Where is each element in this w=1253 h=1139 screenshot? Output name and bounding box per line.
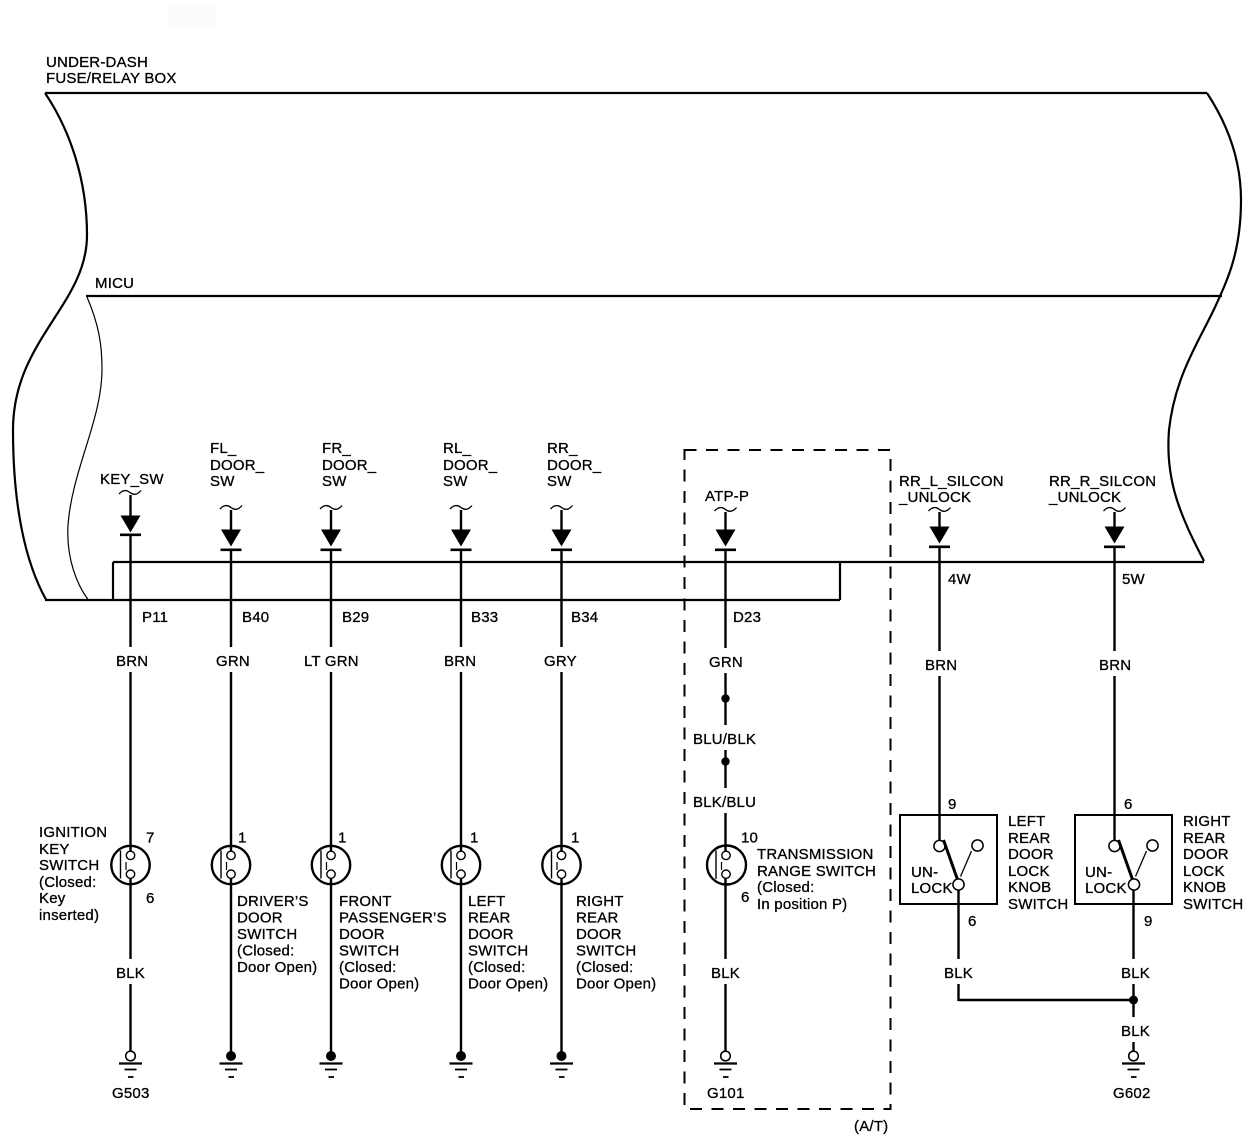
svg-text:(Closed:: (Closed: [576, 959, 633, 976]
svg-text:LOCK: LOCK [911, 880, 953, 897]
switch S2 driver's door switch [212, 846, 250, 884]
svg-text:DOOR_: DOOR_ [322, 457, 377, 474]
svg-text:BRN: BRN [116, 653, 148, 670]
faint watermark box [168, 4, 216, 30]
net label RR_L_SILCON_UNLOCK [898, 473, 1004, 506]
svg-text:REAR: REAR [1008, 830, 1050, 847]
wire RR_L_SILCON_UNLOCK upper [938, 512, 940, 527]
fuse/relay box right wavy edge [1168, 93, 1241, 561]
ground G503 [119, 1051, 142, 1077]
svg-text:PASSENGER’S: PASSENGER’S [339, 910, 447, 927]
wire color label BLK (right knob) [1115, 959, 1159, 984]
right knob switch contact right [1147, 840, 1158, 851]
svg-text:SWITCH: SWITCH [39, 857, 99, 874]
wire squiggle RL_DOOR_SW [450, 506, 472, 510]
dashed A/T option box [685, 450, 891, 1109]
svg-text:DOOR: DOOR [1008, 846, 1054, 863]
svg-text:REAR: REAR [576, 910, 618, 927]
wire color label BRN (RR_L) [919, 651, 964, 676]
wire color label BLK (transmission) [705, 959, 749, 984]
triangle bar RL_DOOR_SW [451, 548, 472, 551]
svg-text:5W: 5W [1122, 571, 1146, 588]
svg-text:6: 6 [1124, 796, 1133, 813]
svg-text:FRONT: FRONT [339, 893, 392, 910]
wire FR_DOOR_SW upper [330, 510, 332, 530]
switch S4 left rear door switch [442, 846, 480, 884]
ground left rear door switch [450, 1051, 473, 1077]
right knob switch alternate position line [1136, 851, 1147, 877]
net label FR_DOOR_SW [322, 440, 377, 490]
label left rear door switch [468, 893, 548, 993]
svg-text:SWITCH: SWITCH [576, 943, 636, 960]
svg-text:DRIVER’S: DRIVER’S [237, 893, 309, 910]
ground driver's door switch [220, 1051, 243, 1077]
svg-text:BLK/BLU: BLK/BLU [693, 794, 756, 811]
wire RR_L_SILCON_UNLOCK to knob switch [938, 547, 940, 840]
left knob switch pivot contact [953, 879, 964, 890]
triangle ATP-P [716, 530, 736, 547]
wire ATP-P upper [724, 512, 726, 530]
svg-text:Door Open): Door Open) [576, 976, 656, 993]
left rear door lock knob switch box [900, 815, 997, 904]
svg-text:inserted): inserted) [39, 907, 99, 924]
ground G602 [1122, 1051, 1145, 1077]
wire color label GRN (FL) [210, 647, 255, 672]
wire color label BLK/BLU [687, 788, 764, 813]
svg-text:GRN: GRN [216, 653, 250, 670]
net label RR_DOOR_SW [547, 440, 602, 490]
svg-text:6: 6 [968, 913, 977, 930]
svg-text:(Closed:: (Closed: [757, 879, 814, 896]
wire squiggle RR_R_SILCON_UNLOCK [1104, 508, 1126, 512]
svg-text:Door Open): Door Open) [339, 976, 419, 993]
svg-text:1: 1 [470, 830, 479, 847]
svg-text:LOCK: LOCK [1085, 880, 1127, 897]
wire RR_DOOR_SW upper [560, 510, 562, 530]
wire color label BLK (to G602) [1115, 1017, 1159, 1042]
svg-text:(Closed:: (Closed: [468, 959, 525, 976]
wire driver's door switch to ground [230, 878, 232, 1052]
svg-text:BLK: BLK [711, 965, 740, 982]
svg-text:DOOR_: DOOR_ [443, 457, 498, 474]
svg-text:DOOR: DOOR [1183, 846, 1229, 863]
svg-text:UN-: UN- [1085, 864, 1112, 881]
svg-text:G503: G503 [112, 1085, 150, 1102]
wire RR_DOOR_SW to switch [560, 550, 562, 852]
svg-text:SW: SW [443, 473, 468, 490]
svg-text:BRN: BRN [925, 657, 957, 674]
wire left knob switch output [957, 891, 959, 1002]
triangle bar RR_DOOR_SW [551, 548, 572, 551]
svg-text:GRN: GRN [709, 654, 743, 671]
svg-text:DOOR_: DOOR_ [547, 457, 602, 474]
svg-text:RIGHT: RIGHT [1183, 813, 1231, 830]
ground front passenger's door switch [320, 1051, 343, 1077]
triangle RL_DOOR_SW [451, 530, 471, 547]
wire squiggle FR_DOOR_SW [320, 506, 342, 510]
wire left rear door switch to ground [460, 878, 462, 1052]
triangle bar FL_DOOR_SW [221, 548, 242, 551]
svg-text:BLK: BLK [1121, 1023, 1150, 1040]
wire right rear door switch to ground [560, 878, 562, 1052]
svg-text:LT GRN: LT GRN [304, 653, 359, 670]
svg-text:LOCK: LOCK [1183, 863, 1225, 880]
svg-text:KEY: KEY [39, 841, 70, 858]
label front passenger's door switch [339, 893, 447, 993]
junction dot ATP-P lower [721, 757, 729, 765]
svg-text:SWITCH: SWITCH [468, 943, 528, 960]
fuse/relay box bottom edge right part [113, 561, 1204, 563]
wire squiggle KEY_SW [119, 491, 141, 495]
wire FR_DOOR_SW to switch [330, 550, 332, 852]
svg-text:UN-: UN- [911, 864, 938, 881]
svg-text:G602: G602 [1113, 1085, 1151, 1102]
svg-text:BLU/BLK: BLU/BLK [693, 731, 756, 748]
ground G101 [714, 1051, 737, 1077]
triangle bar KEY_SW [120, 533, 141, 536]
triangle RR_R_SILCON_UNLOCK [1105, 527, 1125, 544]
svg-text:6: 6 [741, 889, 750, 906]
connector strip right vertical [839, 562, 841, 600]
svg-text:SWITCH: SWITCH [1183, 896, 1243, 913]
junction dot ATP-P upper [721, 694, 729, 702]
fuse/relay box top edge [45, 92, 1207, 94]
svg-text:REAR: REAR [468, 910, 510, 927]
triangle bar RR_L_SILCON_UNLOCK [929, 545, 950, 548]
svg-text:FR_: FR_ [322, 440, 351, 457]
svg-text:B29: B29 [342, 609, 369, 626]
left knob switch lever [944, 840, 958, 880]
svg-text:G101: G101 [707, 1085, 745, 1102]
triangle RR_DOOR_SW [552, 530, 572, 547]
svg-text:B33: B33 [471, 609, 498, 626]
switch S1 ignition key switch [111, 846, 149, 884]
right knob switch lever [1119, 840, 1133, 880]
net label RR_R_SILCON_UNLOCK [1048, 473, 1156, 506]
left knob switch alternate position line [961, 851, 972, 877]
label UN-LOCK (left knob switch) [911, 864, 953, 897]
svg-text:MICU: MICU [95, 275, 134, 292]
svg-text:9: 9 [948, 796, 957, 813]
connector strip left vertical [112, 562, 114, 600]
wire color label BRN (KEY_SW) [109, 647, 154, 672]
wire ATP-P lower [724, 762, 726, 853]
wire FL_DOOR_SW to switch [230, 550, 232, 852]
right rear door lock knob switch box [1075, 815, 1172, 904]
svg-text:DOOR: DOOR [339, 926, 385, 943]
svg-text:BLK: BLK [116, 965, 145, 982]
svg-text:UNDER-DASH: UNDER-DASH [46, 54, 148, 71]
wire color label GRN (ATP-P) [703, 648, 748, 673]
svg-text:B34: B34 [571, 609, 598, 626]
label transmission range switch [757, 846, 876, 913]
svg-text:(Closed:: (Closed: [237, 943, 294, 960]
junction dot BLK wires [1129, 996, 1138, 1005]
svg-text:6: 6 [146, 890, 155, 907]
svg-text:GRY: GRY [544, 653, 577, 670]
svg-text:SWITCH: SWITCH [339, 943, 399, 960]
wire KEY_SW upper [129, 495, 131, 516]
svg-text:RIGHT: RIGHT [576, 893, 624, 910]
switch S6 transmission range switch [707, 846, 746, 885]
label UNDER-DASH FUSE/RELAY BOX [46, 54, 177, 87]
label right rear door lock knob switch [1183, 813, 1243, 913]
svg-text:BLK: BLK [944, 965, 973, 982]
wire ATP-P middle [724, 699, 726, 762]
wire RR_R_SILCON_UNLOCK to knob switch [1113, 547, 1115, 840]
svg-text:(Closed:: (Closed: [339, 959, 396, 976]
svg-text:RL_: RL_ [443, 440, 472, 457]
switch S3 front passenger's door switch [312, 846, 350, 884]
switch S5 right rear door switch [542, 846, 580, 884]
svg-text:TRANSMISSION: TRANSMISSION [757, 846, 874, 863]
wire FL_DOOR_SW upper [230, 510, 232, 530]
wire BLK ignition key switch to ground [129, 878, 131, 1052]
svg-text:LEFT: LEFT [1008, 813, 1045, 830]
wire color label BRN (RL) [438, 647, 483, 672]
wire elbow left knob to right ground [959, 999, 1134, 1001]
svg-text:RR_L_SILCON: RR_L_SILCON [899, 473, 1004, 490]
wire color label BLU/BLK [687, 725, 764, 750]
svg-text:1: 1 [571, 830, 580, 847]
svg-text:7: 7 [146, 830, 155, 847]
triangle bar FR_DOOR_SW [321, 548, 342, 551]
wire KEY_SW to switch [129, 535, 131, 852]
svg-text:DOOR: DOOR [468, 926, 514, 943]
svg-text:BRN: BRN [444, 653, 476, 670]
svg-text:SW: SW [322, 473, 347, 490]
wire color label GRY (RR) [538, 647, 583, 672]
svg-text:10: 10 [741, 830, 758, 847]
fuse/relay box left wavy edge [13, 93, 87, 600]
triangle FL_DOOR_SW [221, 530, 241, 547]
wire right knob switch output [1132, 891, 1134, 1052]
label UN-LOCK (right knob switch) [1085, 864, 1127, 897]
svg-text:REAR: REAR [1183, 830, 1225, 847]
svg-text:Key: Key [39, 890, 66, 907]
svg-text:_UNLOCK: _UNLOCK [1048, 489, 1121, 506]
svg-text:LOCK: LOCK [1008, 863, 1050, 880]
svg-text:4W: 4W [948, 571, 972, 588]
svg-text:1: 1 [238, 830, 247, 847]
svg-text:Door Open): Door Open) [237, 959, 317, 976]
wire squiggle RR_L_SILCON_UNLOCK [929, 508, 951, 512]
svg-text:P11: P11 [142, 609, 168, 626]
triangle KEY_SW [121, 516, 141, 533]
svg-text:RR_: RR_ [547, 440, 578, 457]
MICU top edge [86, 295, 1222, 297]
left knob switch contact left [934, 840, 945, 851]
right knob switch pivot contact [1128, 879, 1139, 890]
svg-text:In position P): In position P) [757, 896, 847, 913]
triangle bar RR_R_SILCON_UNLOCK [1104, 545, 1125, 548]
wire front passenger's door switch to ground [330, 878, 332, 1052]
svg-text:FL_: FL_ [210, 440, 237, 457]
label driver's door switch [237, 893, 317, 976]
svg-text:SW: SW [547, 473, 572, 490]
svg-text:1: 1 [338, 830, 347, 847]
triangle bar ATP-P [715, 548, 736, 551]
wire color label BLK (left knob) [938, 959, 982, 984]
wire RR_R_SILCON_UNLOCK upper [1113, 512, 1115, 527]
svg-text:(A/T): (A/T) [854, 1118, 888, 1135]
svg-text:DOOR_: DOOR_ [210, 457, 265, 474]
wire RL_DOOR_SW upper [460, 510, 462, 530]
svg-text:IGNITION: IGNITION [39, 824, 107, 841]
svg-text:SWITCH: SWITCH [1008, 896, 1068, 913]
svg-text:KNOB: KNOB [1183, 879, 1226, 896]
wire RL_DOOR_SW to switch [460, 550, 462, 852]
svg-text:RR_R_SILCON: RR_R_SILCON [1049, 473, 1156, 490]
MICU left wavy edge [68, 297, 102, 600]
ground right rear door switch [550, 1051, 573, 1077]
left knob switch contact right [972, 840, 983, 851]
right knob switch contact left [1109, 840, 1120, 851]
svg-text:(Closed:: (Closed: [39, 874, 96, 891]
label ignition key switch [39, 824, 107, 924]
wire squiggle RR_DOOR_SW [551, 506, 573, 510]
svg-text:LEFT: LEFT [468, 893, 505, 910]
svg-text:BLK: BLK [1121, 965, 1150, 982]
svg-text:9: 9 [1144, 913, 1153, 930]
wire color label BLK (ignition) [110, 959, 154, 984]
svg-text:DOOR: DOOR [237, 910, 283, 927]
svg-text:KEY_SW: KEY_SW [100, 471, 164, 488]
svg-text:ATP-P: ATP-P [705, 488, 749, 505]
svg-text:D23: D23 [733, 609, 761, 626]
svg-text:SW: SW [210, 473, 235, 490]
svg-text:Door Open): Door Open) [468, 976, 548, 993]
wire color label LT GRN (FR) [298, 647, 365, 672]
svg-text:KNOB: KNOB [1008, 879, 1051, 896]
svg-text:_UNLOCK: _UNLOCK [898, 489, 971, 506]
triangle FR_DOOR_SW [321, 530, 341, 547]
svg-text:BRN: BRN [1099, 657, 1131, 674]
svg-text:RANGE SWITCH: RANGE SWITCH [757, 863, 876, 880]
svg-text:DOOR: DOOR [576, 926, 622, 943]
net label FL_DOOR_SW [210, 440, 265, 490]
label left rear door lock knob switch [1008, 813, 1068, 913]
wire color label BRN (RR_R) [1093, 651, 1138, 676]
wire squiggle FL_DOOR_SW [220, 506, 242, 510]
wire ATP-P to junction [724, 550, 726, 698]
net label RL_DOOR_SW [443, 440, 498, 490]
wire BLK transmission range switch to ground [724, 879, 726, 1052]
svg-text:SWITCH: SWITCH [237, 926, 297, 943]
wire squiggle ATP-P [715, 508, 737, 512]
triangle RR_L_SILCON_UNLOCK [930, 527, 950, 544]
label right rear door switch [576, 893, 656, 993]
fuse/relay box bottom edge left part [45, 599, 840, 601]
svg-text:B40: B40 [242, 609, 269, 626]
svg-text:FUSE/RELAY BOX: FUSE/RELAY BOX [46, 70, 177, 87]
